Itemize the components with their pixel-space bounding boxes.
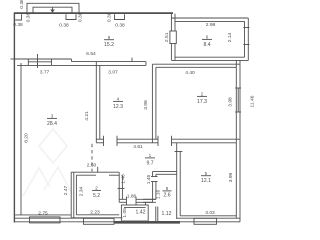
top wall notch A [66,14,76,19]
window room 3 bottom [30,217,61,223]
svg-text:1.12: 1.12 [162,211,172,217]
room 12.1 bottom interior line [180,215,236,217]
svg-text:2.34: 2.34 [78,186,84,196]
svg-text:11.46: 11.46 [249,95,255,107]
window tick hall to room 3 [37,54,39,68]
svg-text:9.7: 9.7 [146,160,153,166]
tick on room 5.2 right wall [118,187,125,189]
window on main right wall [235,88,241,112]
room 8.4 top wall [171,18,248,21]
bottom outer wall right section [177,218,240,222]
svg-text:2.47: 2.47 [63,185,69,195]
svg-text:1.05: 1.05 [122,208,128,218]
top-left wall notch [15,14,21,20]
room label 5 / 12.1 [201,171,211,184]
step connector in hall wall [71,59,73,62]
door tick room 12.1 [175,151,183,153]
room 3 top wall [17,62,146,66]
corridor room label 1 / 9.7 [145,153,155,166]
top wall notch B [115,14,125,19]
room 8.4 left wall [171,14,175,61]
door tick right of room 12.3 door [116,136,118,146]
svg-text:3.99: 3.99 [228,172,234,182]
svg-text:0.38: 0.38 [25,12,31,22]
corridor top wall segment left [96,139,103,143]
left wall [13,13,15,223]
svg-text:15.2: 15.2 [104,42,114,48]
room 5.2 right wall [119,172,122,202]
svg-text:6.54: 6.54 [86,51,96,57]
room label 2 / 17.3 [197,92,207,105]
door tick left of room 12.3 door [103,136,105,146]
room 2.6 left wall [153,171,156,202]
svg-text:1.40: 1.40 [120,174,126,184]
svg-text:4.61: 4.61 [133,144,143,150]
porch outer outline [27,3,79,13]
dimension tick 2.50 [97,167,99,172]
divider wall room 12.3 / room 17.3 [152,64,156,143]
svg-text:28.4: 28.4 [47,121,57,127]
bottom outer wall middle thick section [114,221,180,224]
room 2.6 bottom wall [143,199,156,202]
svg-text:2.50: 2.50 [87,162,97,168]
door ticks wc door [127,197,146,206]
svg-text:2.98: 2.98 [206,22,216,28]
room 8.4 right wall [245,18,249,60]
svg-text:3.07: 3.07 [108,69,118,75]
corridor top wall segment middle [117,139,158,143]
svg-text:2.51: 2.51 [164,32,170,42]
dimension tick above wall at x132 [131,58,133,62]
divider wall room3 / room 12.3 [96,62,100,143]
svg-text:1.42: 1.42 [136,209,146,215]
room 5.2 left wall [71,172,76,218]
watermark chevrons [23,167,72,196]
svg-text:2.6: 2.6 [163,193,170,199]
svg-text:0.38: 0.38 [115,23,125,29]
door between hall and room 8.4 [170,31,176,44]
svg-text:12.3: 12.3 [113,104,123,110]
niche left wall [156,207,158,222]
corridor top wall segment right [172,139,241,143]
window hall to room 3 [28,59,51,65]
porch entrance arrow [50,7,55,13]
main right wall [236,60,240,221]
wall end cap at door to room 12.3 [145,62,147,66]
room 12.1 left wall [177,143,181,219]
bottom outer wall left section [14,218,114,222]
svg-text:3.98: 3.98 [143,100,149,110]
svg-text:8.20: 8.20 [24,133,30,143]
svg-text:1.16: 1.16 [155,189,161,199]
corridor strip bottom wall [119,199,156,202]
wc room outline [121,205,148,221]
room 5.2 top wall [71,172,119,175]
left wall inner line [20,63,22,215]
room 3 bottom interior line [15,214,71,216]
room 17.3 top wall [152,64,240,67]
room 5.2 bottom wall [71,215,122,218]
room label 3 / 28.4 [47,114,57,127]
left wall dimension tick [11,58,15,60]
window room 5.2 bottom [84,218,115,224]
dashed boundary room 3 / corridor [91,144,93,172]
window on room 8.4 right wall [243,28,249,45]
svg-text:4.40: 4.40 [185,70,195,76]
svg-text:1.45: 1.45 [146,174,152,184]
room label 2 / 5.2 [92,186,101,199]
svg-text:0.38: 0.38 [77,12,83,22]
door tick right of room 17.3 door [171,136,173,146]
door tick left of room 17.3 door [157,136,159,146]
svg-text:5.2: 5.2 [93,193,100,199]
svg-text:0.38: 0.38 [59,23,69,29]
svg-text:4.21: 4.21 [84,111,90,121]
hall room label 15.2 [104,35,114,48]
svg-text:0.38: 0.38 [19,0,25,9]
svg-text:2.75: 2.75 [38,210,48,216]
hall lower boundary thin line [14,58,71,60]
svg-text:3.03: 3.03 [205,210,215,216]
svg-text:17.3: 17.3 [197,99,207,105]
svg-text:3.77: 3.77 [40,69,50,75]
svg-text:3.98: 3.98 [227,97,233,107]
room label 6 / 8.4 [202,35,212,48]
svg-text:0.38: 0.38 [106,12,112,22]
top wall [14,12,173,14]
svg-text:2.23: 2.23 [90,209,100,215]
room label 4 / 12.3 [113,97,123,110]
porch inner outline [33,7,72,13]
svg-text:1.86: 1.86 [127,193,137,199]
watermark diamond [39,129,67,163]
svg-text:12.1: 12.1 [201,178,211,184]
room 2.6 top wall [153,171,177,174]
svg-text:0.38: 0.38 [13,22,23,28]
window room 12.1 bottom [194,218,217,224]
room label 8 / 2.6 [163,186,172,198]
svg-text:2.14: 2.14 [227,32,233,42]
svg-text:8.4: 8.4 [203,42,210,48]
room 8.4 bottom wall [171,57,248,60]
door ticks room 2.6 [151,177,158,182]
